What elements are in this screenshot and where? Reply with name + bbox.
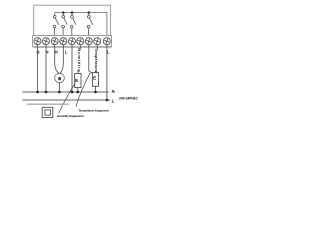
terminal 5 (69, 38, 76, 45)
terminal 4 (60, 38, 67, 45)
wire t1 to N bus (37, 45, 39, 92)
relay switch S3 (70, 13, 75, 36)
relay switch S1 (53, 13, 58, 36)
junction sensor/N (58, 91, 61, 94)
relay switch S4 (87, 13, 92, 36)
svg-text:Temperature Equipment: Temperature Equipment (78, 109, 108, 113)
svg-text:L: L (112, 99, 115, 104)
terminal 6 (77, 38, 84, 45)
leader humidity equipment (59, 84, 75, 113)
junction t5/N (71, 91, 74, 94)
wire box2 to N bus (95, 86, 97, 92)
humidity sensor (55, 73, 65, 83)
svg-text:N: N (36, 49, 39, 54)
terminal 3 (51, 38, 58, 45)
temperature equipment box E (92, 73, 98, 87)
svg-text:Humidity Equipment: Humidity Equipment (57, 114, 84, 118)
wire t7 to temperature equipment (89, 45, 93, 74)
junction on bus at t5 (71, 11, 74, 14)
wall socket icon (42, 107, 53, 117)
wire t6 to humidity equipment (79, 45, 81, 50)
svg-text:200-240VAC: 200-240VAC (119, 96, 138, 100)
wire t5 to N bus (71, 45, 73, 92)
terminal strip (33, 36, 112, 47)
wire t9 to L bus (106, 45, 108, 100)
junction on bus at t7 (88, 11, 91, 14)
controller box (34, 5, 111, 47)
terminal 2 (43, 38, 50, 45)
wire sensor to N bus (58, 83, 60, 92)
svg-text:L: L (65, 49, 68, 54)
junction on bus at t4 (62, 11, 65, 14)
wire t8 to temperature equipment (96, 45, 98, 50)
junction box1/N (77, 91, 80, 94)
wire t4 to sensor (60, 45, 63, 73)
svg-text:Temperature: Temperature (94, 48, 98, 72)
terminal 7 (85, 38, 92, 45)
junction t9/L (106, 99, 109, 102)
terminal 8 (94, 38, 101, 45)
svg-text:E: E (93, 76, 96, 81)
junction t2/N (45, 91, 48, 94)
wire t3 to sensor (55, 45, 59, 73)
relay switch S2 (62, 13, 67, 36)
internal L bus (55, 13, 107, 36)
svg-text:Humidity: Humidity (77, 48, 82, 72)
svg-text:L: L (107, 49, 110, 54)
junction t1/N (36, 91, 39, 94)
svg-text:H: H (55, 49, 58, 54)
junction box2/N (94, 91, 97, 94)
terminal 9 (103, 38, 110, 45)
leader temperature equipment (76, 73, 90, 107)
wall line (27, 103, 69, 105)
L bus line (22, 99, 110, 101)
svg-text:N: N (112, 89, 115, 94)
N bus line (22, 91, 108, 93)
svg-text:E: E (75, 78, 78, 83)
humidity equipment box E (75, 73, 81, 87)
terminal 1 (34, 38, 41, 45)
wire t2 to N bus (45, 45, 47, 92)
wire box1 to N bus (77, 88, 79, 92)
